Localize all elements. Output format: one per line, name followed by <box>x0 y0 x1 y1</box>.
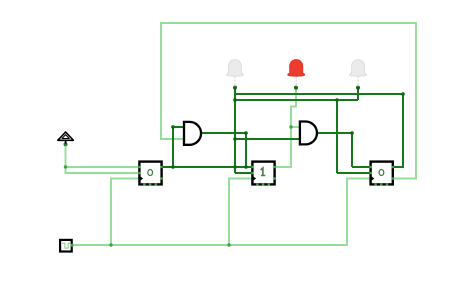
JK flip-flop FF1 (value 0) <box>138 162 163 186</box>
FF1 state digit 0 <box>148 170 153 176</box>
wire: power to FF1 J <box>65 166 140 168</box>
node: H2 tap for FF3 K <box>335 98 339 102</box>
FF3 pins <box>369 166 372 169</box>
wire: clock riser to FF3 clk <box>347 179 371 247</box>
wire: bus H1 <box>234 93 403 95</box>
node: H2 start at LED1 vertical <box>233 98 237 102</box>
node: H1 corner <box>401 92 405 96</box>
node: AND1 input A corner <box>171 125 175 129</box>
FF1 pins <box>138 166 141 169</box>
wire: AND2 input B feed <box>235 138 300 140</box>
wire: riser to AND1 input A <box>172 127 174 167</box>
wire: clock riser to FF2 clk <box>229 179 253 247</box>
FF1 clock chevron <box>140 176 144 182</box>
wire: feedback loop top (Q3-bar net) <box>161 22 416 24</box>
wire: AND1 input B from loop <box>160 138 185 140</box>
JK flip-flop FF2 (value 1) <box>251 162 276 186</box>
wire: loop left vertical <box>160 22 162 139</box>
wire: clock riser to FF1 clk <box>111 179 140 247</box>
FF2 clock chevron <box>253 176 257 182</box>
wire: H2 drop to FF3 K <box>336 100 338 173</box>
node: power output <box>64 142 68 146</box>
wire: AND2 input A stub <box>291 126 300 128</box>
JK flip-flop FF3 (value 0) <box>369 162 394 186</box>
node: AND2 input A tap <box>289 125 292 128</box>
wire: FF3 Q-bar to loop <box>394 178 417 180</box>
wire: FF3 K stub <box>337 172 371 174</box>
FF3 clock chevron <box>371 176 375 182</box>
wire: power to FF1 K <box>65 172 140 174</box>
wire: LED3 stub down to H2 <box>357 88 359 100</box>
node: AND2 input B tap <box>233 137 237 141</box>
wire: power output vertical <box>65 144 67 174</box>
power V1 <box>58 132 74 144</box>
node: AND1 output corner <box>244 131 248 135</box>
clock CLK1 <box>60 240 73 252</box>
wire: FF3 J stub <box>352 166 371 168</box>
wire: AND1 output horizontal <box>201 132 246 134</box>
node: power J/K split <box>64 165 67 168</box>
wire: FF3 Q riser to H1 <box>402 94 404 168</box>
AND gate U2 <box>300 122 317 145</box>
wire: FF3 Q output row <box>393 166 403 168</box>
wire: AND1 input A stub <box>173 126 185 128</box>
FF3 state digit 0 <box>379 170 384 176</box>
node: LED2 input <box>294 86 298 90</box>
wire: AND2 output horizontal <box>317 132 353 134</box>
LED D3 (off) <box>350 60 367 87</box>
wire: FF2 Q riser to LED2 <box>291 88 296 168</box>
node: clock tap FF2 <box>227 243 230 246</box>
wire: FF2 Q output row <box>274 166 291 168</box>
node: Q1 row junction at riser <box>171 165 175 169</box>
FF2 pins <box>251 166 254 169</box>
wire: loop right vertical <box>415 22 417 179</box>
node: AND2 output corner <box>350 131 354 135</box>
AND gate U1 <box>184 122 201 145</box>
wire: LED1 main vertical <box>234 88 236 173</box>
wire: clock bus horizontal <box>73 244 348 246</box>
wire: AND1 output drop to FF2 J row <box>245 132 247 167</box>
wire: FF1 Q row to FF2 J <box>161 166 253 168</box>
FF2 state digit 1 <box>261 168 266 176</box>
wire: bus H2 <box>234 99 358 101</box>
node: LED1 input <box>233 86 237 90</box>
node: Q1 row junction at AND1 drop <box>244 165 248 169</box>
node: LED3 input <box>356 86 360 90</box>
LED D1 (off) <box>226 60 243 87</box>
wire: FF2 K stub <box>235 172 253 174</box>
LED D2 (on, red) <box>288 60 305 87</box>
wire: AND2 output drop to FF3 J <box>351 133 353 167</box>
node: Q1 row junction at LED1 vertical <box>233 165 237 169</box>
node: clock tap FF1 <box>109 243 112 246</box>
